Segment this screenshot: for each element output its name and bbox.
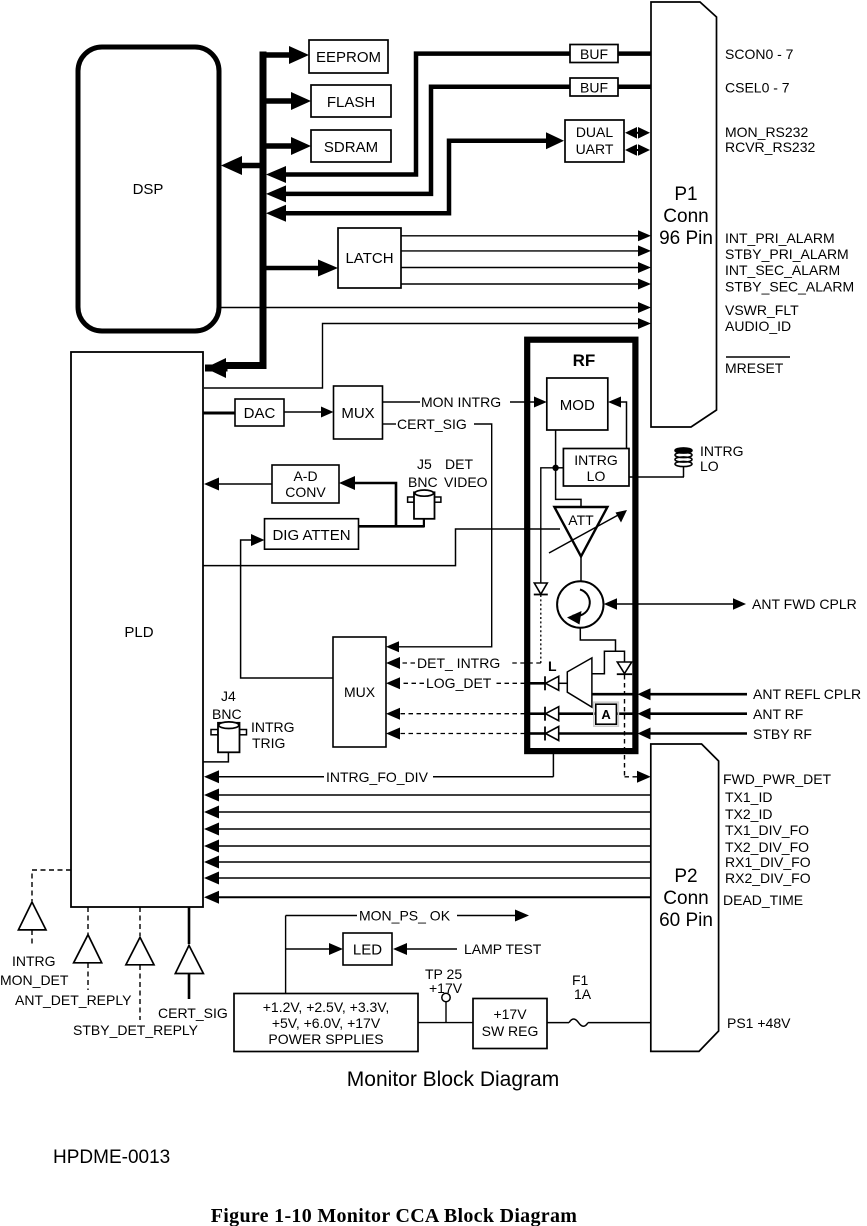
svg-text:INTRG: INTRG <box>12 953 56 969</box>
svg-text:SCON0 - 7: SCON0 - 7 <box>725 46 794 62</box>
svg-text:CONV: CONV <box>285 484 326 500</box>
wire FWD_PWR_DET dashed to P2 <box>625 675 651 783</box>
PLD block <box>71 352 203 907</box>
svg-text:STBY_DET_REPLY: STBY_DET_REPLY <box>73 1022 199 1038</box>
wire PLD to DAC <box>203 412 235 415</box>
wire circulator to ANT FWD CPLR <box>604 598 746 609</box>
svg-text:VIDEO: VIDEO <box>444 474 488 490</box>
wire STBY RF dashed to MUX (lower) <box>386 728 525 740</box>
LATCH block <box>338 228 401 288</box>
svg-text:TX1_ID: TX1_ID <box>725 789 772 805</box>
FLASH memory block <box>311 85 391 117</box>
wire LATCH to P1 INT_SEC_ALARM <box>401 262 651 273</box>
wire BUF1 to P1 <box>618 51 651 56</box>
svg-text:96 Pin: 96 Pin <box>659 228 713 249</box>
svg-text:MRESET: MRESET <box>725 360 784 376</box>
wire MUX CERT_SIG down to MUX (lower) <box>383 416 492 652</box>
svg-text:INT_SEC_ALARM: INT_SEC_ALARM <box>725 262 840 278</box>
wire DET diode dotted down <box>540 595 542 663</box>
wire ANT RF dashed to MUX (lower) <box>386 708 525 720</box>
net label INTRG LO (external) <box>700 443 744 474</box>
svg-text:CSEL0 - 7: CSEL0 - 7 <box>725 80 790 96</box>
wire PLD to test point ANT_DET_REPLY (dashed) <box>87 907 89 934</box>
wire ANT RF row inside RF <box>529 712 633 715</box>
wire PLD to ATT control <box>203 529 560 566</box>
svg-text:VSWR_FLT: VSWR_FLT <box>725 302 799 318</box>
wire BUF2 to P1 <box>618 85 651 90</box>
MUX (lower) block <box>333 637 386 747</box>
wire STBY RF row inside RF <box>529 732 633 735</box>
INTRG LO block <box>563 449 629 487</box>
antenna/coil INTRG LO external <box>675 448 692 477</box>
svg-text:1A: 1A <box>574 986 592 1002</box>
svg-text:Conn: Conn <box>663 206 708 227</box>
bus (vertical data/address bus) <box>260 52 267 363</box>
svg-text:TRIG: TRIG <box>252 735 285 751</box>
wire MOD to ATT <box>556 430 581 507</box>
wire MUX (lower) to DIG ATTEN <box>241 534 333 678</box>
wire DAC to MUX <box>284 407 334 418</box>
test point amplifier INTRG MON_DET <box>18 902 46 947</box>
svg-text:Conn: Conn <box>663 888 708 909</box>
wire ANT REFL CPLR to amp <box>592 688 747 700</box>
svg-text:Figure 1-10 Monitor CCA Block: Figure 1-10 Monitor CCA Block Diagram <box>211 1205 577 1226</box>
net label MRESET (active low, overline) <box>725 357 790 376</box>
wire P2 to PLD TX2_DIV_FO <box>204 840 651 853</box>
wire bus to FLASH <box>263 92 311 110</box>
svg-text:FWD_PWR_DET: FWD_PWR_DET <box>723 771 832 787</box>
wire P2 to PLD TX1_DIV_FO <box>204 823 651 836</box>
wire bus to SDRAM <box>263 137 311 155</box>
svg-text:DEAD_TIME: DEAD_TIME <box>723 892 803 908</box>
diode DET (intrg detector) <box>534 583 548 595</box>
connector P2 (60 pin) <box>651 744 719 1051</box>
diode LOG_DET <box>545 676 559 690</box>
svg-text:MON INTRG: MON INTRG <box>421 394 501 410</box>
svg-text:MON_RS232: MON_RS232 <box>725 124 808 140</box>
svg-text:HPDME-0013: HPDME-0013 <box>53 1147 170 1168</box>
wire P2 to PLD TX1_ID <box>204 789 651 802</box>
svg-text:ANT RF: ANT RF <box>753 706 803 722</box>
DIG ATTEN block <box>265 519 359 550</box>
wire INTRG LO output to external <box>629 476 684 478</box>
svg-text:EEPROM: EEPROM <box>316 49 381 66</box>
svg-text:A: A <box>601 707 611 722</box>
wire DSP to P1 VSWR_FLT <box>219 302 651 313</box>
wire PLD to P1 AUDIO_ID <box>204 318 651 388</box>
attenuator ATT (variable) <box>549 507 627 556</box>
svg-text:DSP: DSP <box>133 181 164 198</box>
svg-text:DET_ INTRG: DET_ INTRG <box>417 655 500 671</box>
wire branch to coupler diode <box>616 651 625 662</box>
svg-text:INTRG: INTRG <box>700 443 744 459</box>
svg-text:RX2_DIV_FO: RX2_DIV_FO <box>725 870 811 886</box>
wire ANT RF external <box>638 708 748 720</box>
svg-text:BUF: BUF <box>580 46 608 62</box>
svg-text:+17V: +17V <box>493 1006 527 1022</box>
wire A-D CONV to PLD <box>204 478 272 491</box>
svg-text:Monitor Block Diagram: Monitor Block Diagram <box>347 1068 559 1091</box>
SDRAM memory block <box>311 130 391 162</box>
svg-text:LO: LO <box>587 468 606 484</box>
DUAL UART block <box>565 120 624 162</box>
wire MUX to MOD, net MON INTRG <box>383 394 547 410</box>
wire LATCH to P1 STBY_PRI_ALARM <box>401 245 651 256</box>
svg-text:MON_PS_ OK: MON_PS_ OK <box>359 908 451 924</box>
wire INTRG LO to MOD <box>608 397 627 449</box>
svg-text:ANT FWD CPLR: ANT FWD CPLR <box>752 596 857 612</box>
svg-text:CERT_SIG: CERT_SIG <box>158 1005 228 1021</box>
bus elbow arrow into PLD <box>205 358 263 378</box>
svg-text:INT_PRI_ALARM: INT_PRI_ALARM <box>725 230 835 246</box>
svg-text:DAC: DAC <box>244 405 276 422</box>
wire INTRG LO left to junction <box>556 467 564 469</box>
svg-text:MOD: MOD <box>560 397 595 414</box>
amplifier log amp <box>548 658 592 707</box>
svg-text:LOG_DET: LOG_DET <box>426 675 492 691</box>
svg-text:PS1 +48V: PS1 +48V <box>727 1015 791 1031</box>
fuse F1 1A <box>547 972 651 1026</box>
diode ANT RF detector <box>545 707 559 721</box>
svg-text:RX1_DIV_FO: RX1_DIV_FO <box>725 854 811 870</box>
connector P1 (96 pin) <box>651 2 717 427</box>
net label INTRG MON_DET <box>0 953 69 988</box>
connector J5 DET BNC VIDEO <box>408 456 488 519</box>
svg-text:MON_DET: MON_DET <box>0 972 69 988</box>
wire MON_PS_OK <box>286 908 529 924</box>
svg-text:PLD: PLD <box>124 624 153 641</box>
regulator +17V SW REG block <box>473 999 547 1049</box>
svg-text:LATCH: LATCH <box>345 250 393 267</box>
svg-text:CERT_SIG: CERT_SIG <box>397 416 467 432</box>
buffer BUF (CSEL) <box>570 78 618 96</box>
MUX (upper) block <box>334 386 383 439</box>
wire DET_INTRG dashed to MUX (lower) <box>386 655 541 671</box>
svg-text:MUX: MUX <box>344 684 376 700</box>
svg-text:LED: LED <box>353 942 382 959</box>
svg-text:INTRG: INTRG <box>251 719 295 735</box>
svg-text:RF: RF <box>573 351 596 370</box>
svg-text:ATT: ATT <box>568 512 594 528</box>
circulator <box>557 581 603 627</box>
svg-text:P1: P1 <box>674 184 697 205</box>
svg-text:INTRG_FO_DIV: INTRG_FO_DIV <box>326 769 429 785</box>
attenuator pad A <box>594 702 619 726</box>
svg-text:MUX: MUX <box>341 405 374 422</box>
svg-text:DIG ATTEN: DIG ATTEN <box>272 527 350 544</box>
A-D CONV block <box>272 465 339 503</box>
svg-text:P2: P2 <box>674 866 697 887</box>
MOD block <box>547 378 608 430</box>
svg-text:J5: J5 <box>417 456 432 472</box>
svg-text:+5V, +6.0V, +17V: +5V, +6.0V, +17V <box>272 1015 381 1031</box>
wire J5 video to A-D CONV <box>339 476 424 526</box>
wire bus to LATCH <box>263 260 338 277</box>
svg-text:+1.2V, +2.5V, +3.3V,: +1.2V, +2.5V, +3.3V, <box>263 999 390 1015</box>
svg-text:STBY RF: STBY RF <box>753 726 812 742</box>
DAC block <box>235 399 284 426</box>
svg-text:LAMP TEST: LAMP TEST <box>464 941 542 957</box>
node junction MOD/INTRG LO/DET <box>552 465 558 471</box>
svg-text:AUDIO_ID: AUDIO_ID <box>725 318 791 334</box>
svg-text:POWER SPPLIES: POWER SPPLIES <box>268 1031 383 1047</box>
buffer BUF (SCON) <box>570 45 618 63</box>
wire P2 to PLD TX2_ID <box>204 806 651 819</box>
arrow bus into DSP <box>221 156 260 175</box>
svg-text:J4: J4 <box>221 688 236 704</box>
test point amplifier CERT_SIG <box>175 945 203 999</box>
wire DUAL UART to P1 RCVR_RS232 (bidirectional) <box>625 144 650 156</box>
svg-text:A-D: A-D <box>293 468 317 484</box>
test point TP 25 +17V <box>425 966 463 1023</box>
power supplies block <box>234 994 418 1052</box>
wire P2 to PLD RX1_DIV_FO <box>204 856 651 869</box>
svg-text:STBY_SEC_ALARM: STBY_SEC_ALARM <box>725 279 854 295</box>
wire LAMP TEST to LED <box>393 941 542 957</box>
wire LOG_DET thick segment inside RF <box>529 682 545 685</box>
wire bus to EEPROM <box>263 46 309 64</box>
wire LOG_DET diode to amp <box>559 682 568 684</box>
wire power supplies to SW REG <box>418 1022 473 1024</box>
test point amplifier ANT_DET_REPLY <box>74 935 102 990</box>
svg-text:ANT REFL CPLR: ANT REFL CPLR <box>753 686 861 702</box>
wire junction to DET diode (DET_INTRG tap) <box>541 468 556 583</box>
wire PLD to test point CERT_SIG <box>188 907 191 944</box>
wire DIG ATTEN output to junction <box>359 525 425 528</box>
svg-text:SDRAM: SDRAM <box>324 139 378 156</box>
svg-text:+17V: +17V <box>429 980 463 996</box>
diode fwd power detector <box>617 662 632 674</box>
svg-text:TX1_DIV_FO: TX1_DIV_FO <box>725 822 809 838</box>
svg-text:BUF: BUF <box>580 80 608 96</box>
svg-text:BNC: BNC <box>212 706 242 722</box>
svg-text:INTRG: INTRG <box>574 452 618 468</box>
wire P2 to PLD DEAD_TIME <box>204 891 651 904</box>
diode STBY RF detector <box>545 727 559 741</box>
wire PLD to test point STBY_DET_REPLY (dashed) <box>139 907 141 936</box>
LED indicator block <box>343 933 392 965</box>
wire PLD to test point INTRG MON_DET (dashed) <box>32 870 71 901</box>
wire LOG_DET dashed to MUX (lower) <box>386 675 525 691</box>
wire power supplies to LED <box>286 916 343 994</box>
wire P2 to PLD RX2_DIV_FO <box>204 872 651 885</box>
wire BUF1 return to bus (SCON bus) <box>266 54 570 183</box>
svg-text:SW REG: SW REG <box>482 1023 539 1039</box>
wire INTRG_FO_DIV from RF to PLD <box>204 751 553 785</box>
wire DUAL UART to P1 MON_RS232 (bidirectional) <box>625 127 650 139</box>
wire DUAL UART to bus <box>266 132 564 222</box>
svg-text:L: L <box>548 658 557 674</box>
RF block outline <box>527 340 635 751</box>
DSP processor block <box>78 47 219 331</box>
svg-text:60 Pin: 60 Pin <box>659 910 713 931</box>
svg-text:BNC: BNC <box>408 474 438 490</box>
svg-text:FLASH: FLASH <box>327 94 375 111</box>
wire J4 to PLD <box>203 753 228 762</box>
svg-text:LO: LO <box>700 458 719 474</box>
svg-text:STBY_PRI_ALARM: STBY_PRI_ALARM <box>725 246 849 262</box>
wire STBY RF external <box>638 728 748 740</box>
EEPROM memory block <box>309 40 388 73</box>
connector J4 BNC INTRG TRIG <box>211 688 295 752</box>
wire ATT to circulator <box>580 556 582 582</box>
wire BUF2 return to bus (CSEL bus) <box>266 87 570 203</box>
wire circulator output path <box>580 628 615 674</box>
svg-text:DET: DET <box>445 456 473 472</box>
test point amplifier STBY_DET_REPLY <box>126 937 154 1020</box>
svg-text:UART: UART <box>576 141 614 157</box>
svg-text:ANT_DET_REPLY: ANT_DET_REPLY <box>15 992 132 1008</box>
wire LATCH to P1 STBY_SEC_ALARM <box>401 279 651 290</box>
svg-text:TX2_ID: TX2_ID <box>725 806 772 822</box>
svg-text:RCVR_RS232: RCVR_RS232 <box>725 139 815 155</box>
wire LATCH to P1 INT_PRI_ALARM <box>401 230 651 241</box>
svg-text:TX2_DIV_FO: TX2_DIV_FO <box>725 839 809 855</box>
svg-text:DUAL: DUAL <box>576 124 614 140</box>
